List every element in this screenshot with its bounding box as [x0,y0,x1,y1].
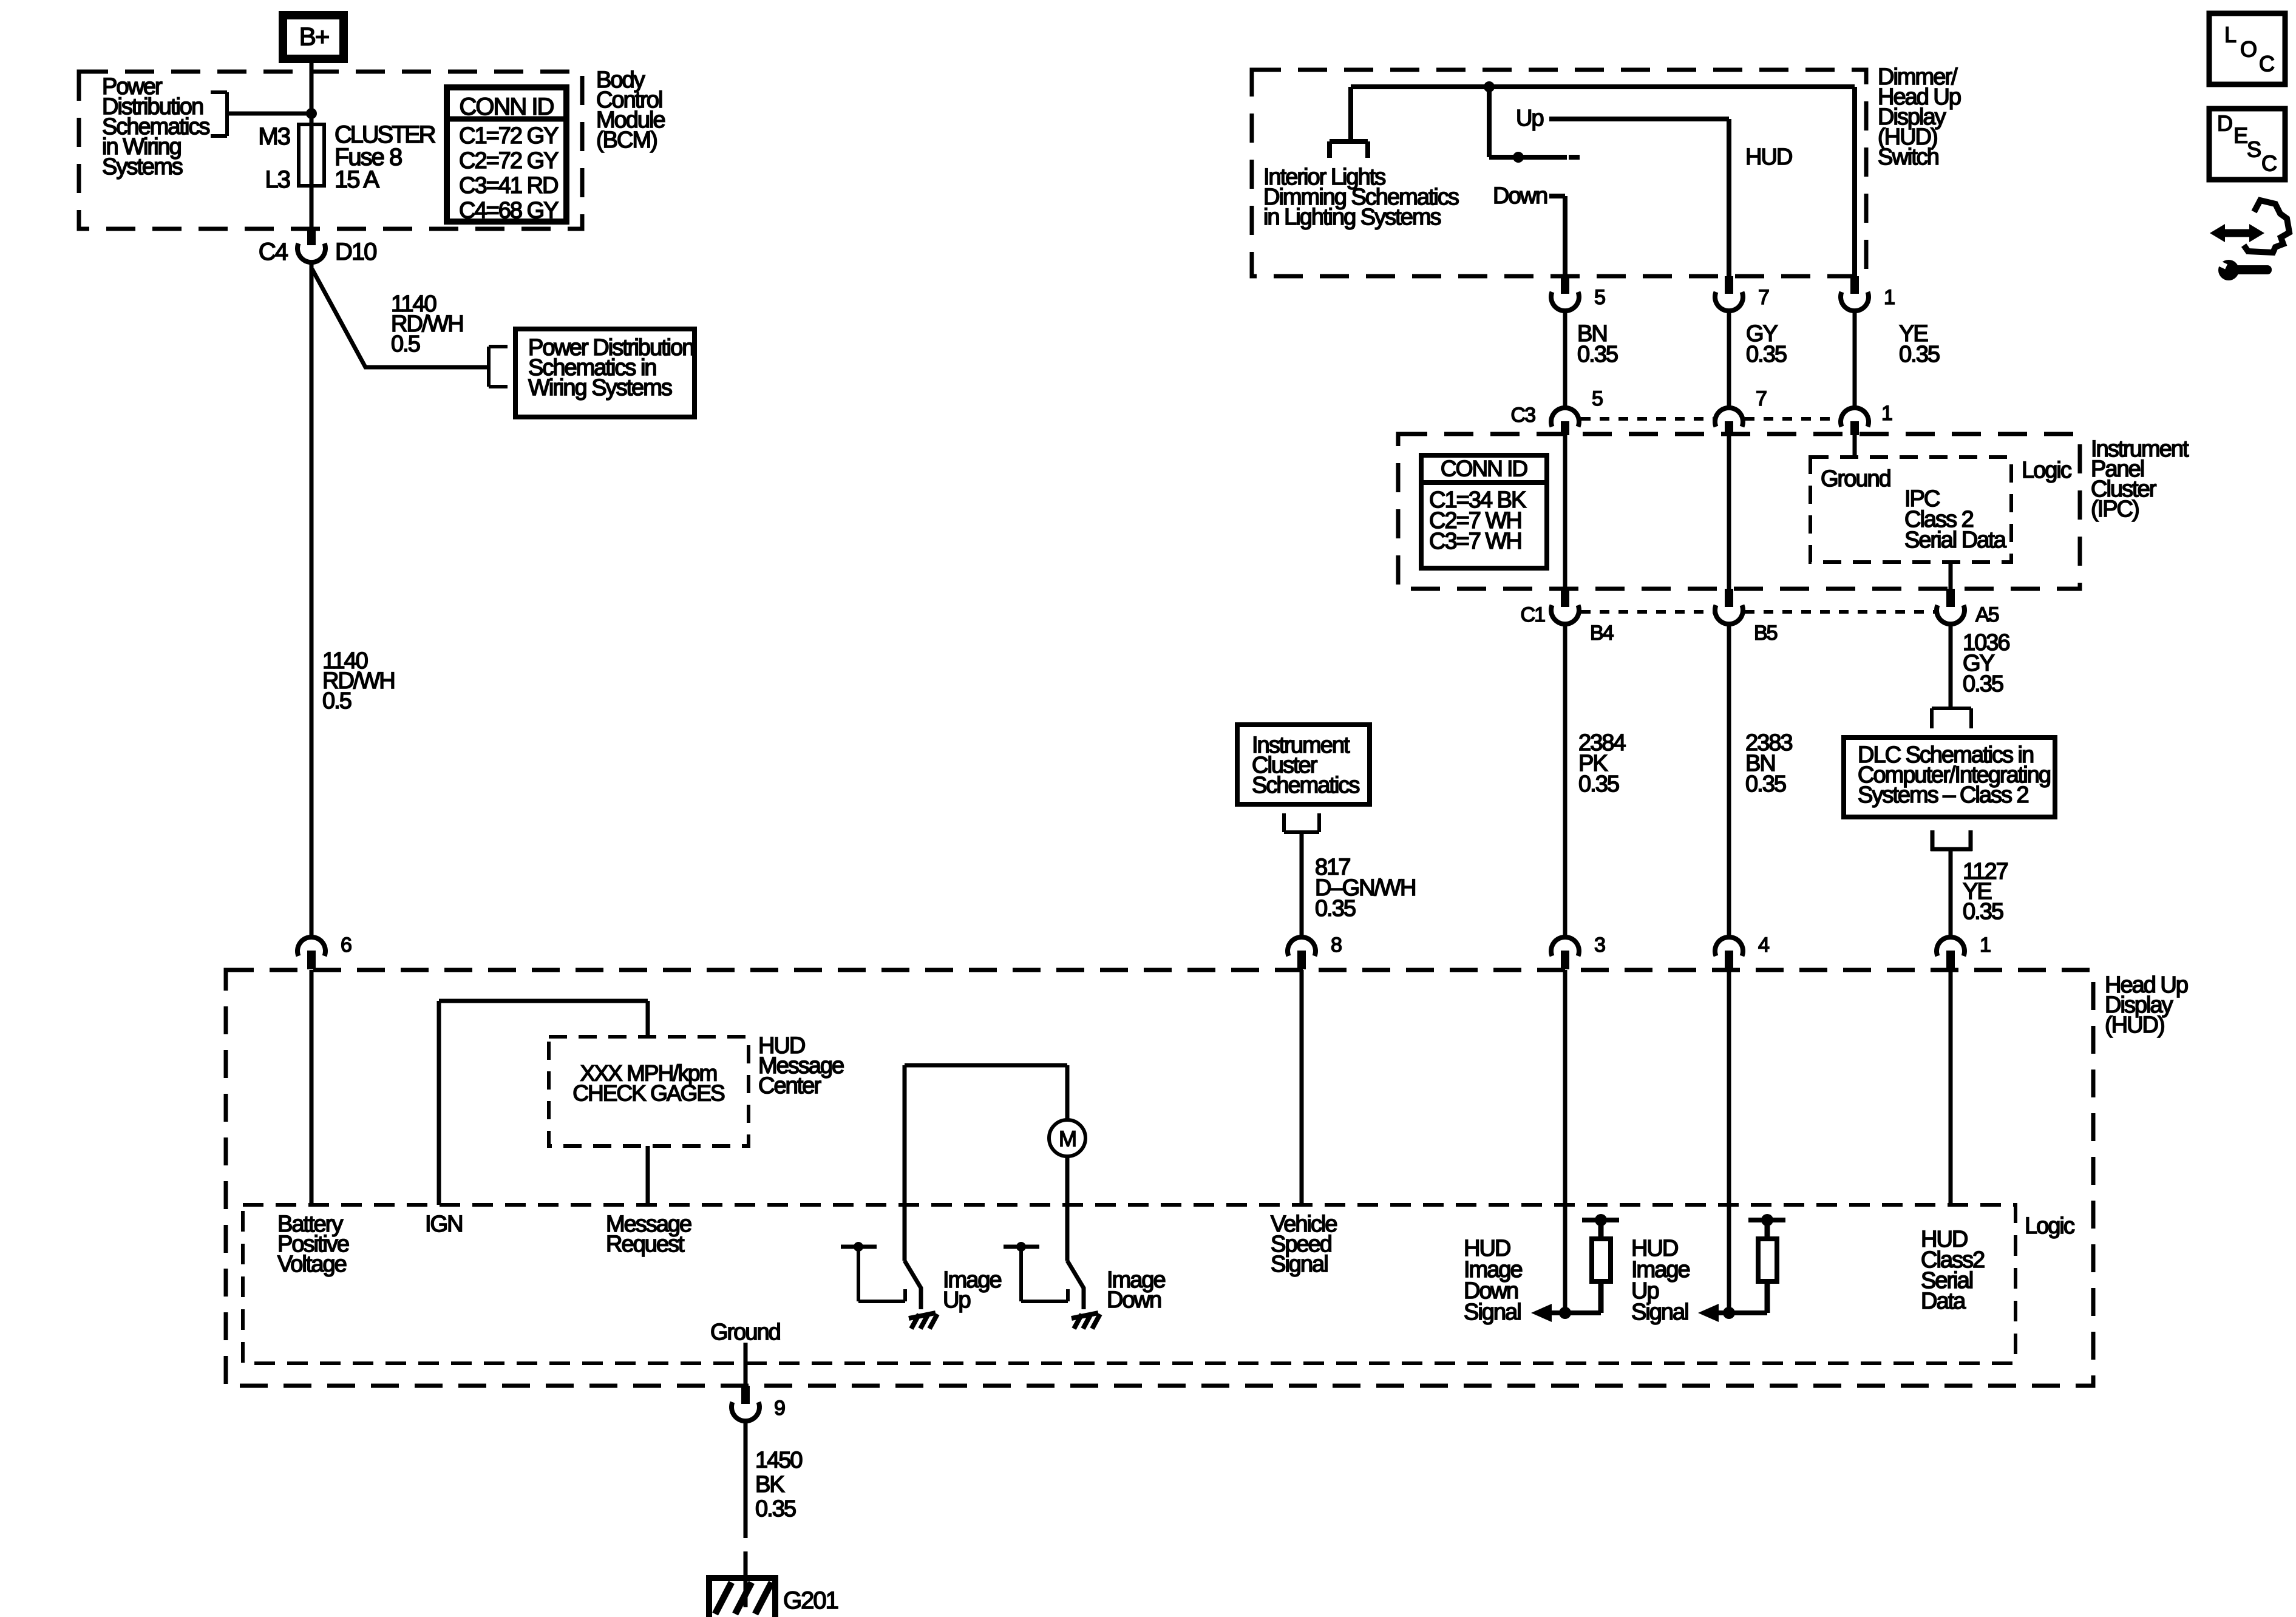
svg-text:Up: Up [943,1287,970,1313]
svg-text:0.35: 0.35 [1315,896,1356,921]
svg-text:C4=68 GY: C4=68 GY [459,198,559,223]
svg-text:8: 8 [1331,934,1342,957]
svg-text:Up: Up [1516,106,1543,131]
svg-text:C1=72 GY: C1=72 GY [459,123,559,149]
svg-text:Logic: Logic [2022,458,2071,483]
svg-text:Signal: Signal [1631,1300,1688,1325]
svg-text:15 A: 15 A [335,166,379,193]
svg-text:G201: G201 [783,1587,838,1614]
svg-text:Down: Down [1493,183,1547,209]
svg-text:6: 6 [341,934,352,957]
svg-text:1450: 1450 [755,1448,802,1473]
svg-text:0.35: 0.35 [1577,342,1618,367]
svg-text:4: 4 [1758,934,1769,957]
svg-text:Signal: Signal [1464,1300,1521,1325]
svg-text:B+: B+ [299,22,329,51]
svg-text:in Lighting Systems: in Lighting Systems [1263,205,1441,230]
svg-text:0.35: 0.35 [1899,342,1940,367]
svg-text:CONN ID: CONN ID [460,93,554,120]
svg-text:M3: M3 [258,123,290,150]
svg-text:C: C [2261,151,2277,176]
svg-text:0.5: 0.5 [322,688,352,714]
svg-text:Voltage: Voltage [277,1252,347,1277]
svg-text:(IPC): (IPC) [2091,497,2139,522]
svg-text:0.35: 0.35 [1963,899,2003,924]
svg-text:5: 5 [1594,286,1605,309]
svg-text:0.5: 0.5 [391,331,420,357]
svg-text:B4: B4 [1590,622,1614,645]
svg-text:S: S [2247,137,2261,162]
svg-text:C3: C3 [1511,404,1536,427]
svg-text:L3: L3 [265,166,290,193]
svg-text:9: 9 [774,1397,785,1420]
svg-text:C4: C4 [259,239,288,265]
svg-text:0.35: 0.35 [1578,771,1619,797]
svg-text:Switch: Switch [1878,144,1938,170]
svg-text:C3=7 WH: C3=7 WH [1429,529,1521,554]
svg-text:Wiring Systems: Wiring Systems [528,375,672,401]
svg-text:0.35: 0.35 [1745,771,1786,797]
svg-text:Data: Data [1921,1289,1966,1314]
svg-text:Ground: Ground [1821,466,1890,492]
svg-text:CHECK GAGES: CHECK GAGES [572,1081,724,1106]
svg-text:B5: B5 [1754,622,1778,645]
svg-text:D: D [2217,111,2232,136]
svg-text:C: C [2259,52,2274,76]
svg-text:7: 7 [1758,286,1769,309]
svg-text:A5: A5 [1975,603,1999,626]
svg-text:1: 1 [1980,934,1991,957]
svg-text:Systems: Systems [102,154,183,180]
svg-text:Ground: Ground [710,1320,780,1345]
svg-text:Down: Down [1107,1287,1161,1313]
svg-text:5: 5 [1592,387,1603,410]
svg-text:HUD: HUD [1745,144,1792,170]
svg-text:3: 3 [1594,934,1605,957]
svg-text:IGN: IGN [425,1212,463,1237]
svg-text:E: E [2233,123,2247,148]
svg-text:M: M [1059,1127,1076,1151]
svg-text:Systems – Class 2: Systems – Class 2 [1858,782,2029,808]
svg-text:C3=41 RD: C3=41 RD [459,173,558,198]
svg-text:BK: BK [755,1472,784,1497]
svg-text:Center: Center [758,1073,821,1099]
svg-text:1: 1 [1884,286,1895,309]
svg-text:C1: C1 [1521,603,1546,626]
svg-text:0.35: 0.35 [1746,342,1787,367]
svg-text:Signal: Signal [1271,1252,1328,1277]
svg-text:CONN ID: CONN ID [1441,456,1527,481]
svg-text:C2=72 GY: C2=72 GY [459,148,559,174]
svg-text:0.35: 0.35 [1963,671,2003,697]
svg-text:Request: Request [606,1232,685,1257]
svg-text:Serial Data: Serial Data [1904,527,2007,553]
svg-text:O: O [2240,37,2257,62]
svg-text:Schematics: Schematics [1252,773,1359,798]
svg-text:7: 7 [1756,387,1767,410]
svg-text:D10: D10 [335,239,376,265]
svg-text:(HUD): (HUD) [2105,1012,2164,1038]
svg-text:1: 1 [1881,402,1892,425]
svg-text:0.35: 0.35 [755,1496,796,1522]
svg-text:(BCM): (BCM) [596,127,657,153]
svg-text:L: L [2224,22,2236,47]
svg-text:Logic: Logic [2025,1213,2074,1239]
